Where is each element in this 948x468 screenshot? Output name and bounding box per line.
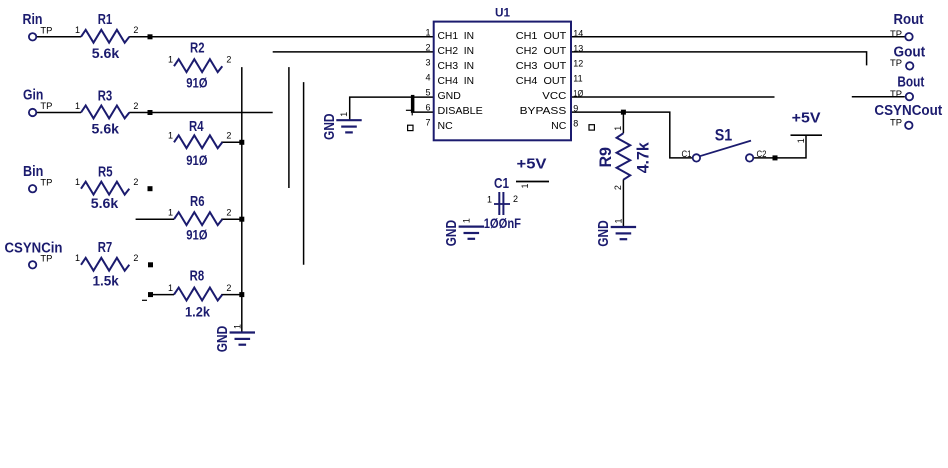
svg-text:5.6k: 5.6k xyxy=(92,121,120,137)
svg-text:R8: R8 xyxy=(190,269,205,285)
svg-text:GND: GND xyxy=(438,90,462,102)
svg-text:2: 2 xyxy=(133,101,138,111)
svg-text:4.7k: 4.7k xyxy=(635,142,653,174)
svg-text:R1: R1 xyxy=(98,12,113,28)
svg-text:7: 7 xyxy=(425,118,430,128)
svg-text:1.2k: 1.2k xyxy=(185,304,210,320)
svg-text:Rout: Rout xyxy=(894,12,924,28)
svg-text:1: 1 xyxy=(613,218,623,223)
svg-text:2: 2 xyxy=(613,185,623,190)
svg-text:1: 1 xyxy=(75,101,80,111)
svg-text:TP: TP xyxy=(890,58,902,69)
svg-text:TP: TP xyxy=(40,101,52,112)
svg-text:R4: R4 xyxy=(189,119,204,135)
svg-text:NC: NC xyxy=(551,120,567,132)
svg-text:1: 1 xyxy=(168,131,173,141)
svg-text:CH4 IN: CH4 IN xyxy=(438,75,475,87)
svg-text:1: 1 xyxy=(232,324,242,329)
svg-text:CH1 IN: CH1 IN xyxy=(438,30,475,42)
svg-text:U1: U1 xyxy=(495,5,510,19)
svg-text:2: 2 xyxy=(513,194,518,204)
svg-text:1: 1 xyxy=(75,177,80,187)
svg-text:1: 1 xyxy=(425,27,430,37)
svg-text:91Ø: 91Ø xyxy=(186,226,207,242)
svg-text:+5V: +5V xyxy=(517,156,547,173)
svg-text:1: 1 xyxy=(75,253,80,263)
svg-text:R5: R5 xyxy=(98,164,113,180)
svg-text:2: 2 xyxy=(133,177,138,187)
svg-text:BYPASS: BYPASS xyxy=(520,105,567,117)
svg-text:C2: C2 xyxy=(757,149,767,159)
svg-text:CH2 OUT: CH2 OUT xyxy=(516,45,567,57)
svg-text:1: 1 xyxy=(520,183,530,188)
svg-text:CH3 IN: CH3 IN xyxy=(438,60,475,72)
svg-text:2: 2 xyxy=(226,208,231,218)
svg-text:CSYNCout: CSYNCout xyxy=(874,103,942,119)
svg-text:DISABLE: DISABLE xyxy=(438,105,483,117)
svg-text:1: 1 xyxy=(461,218,471,223)
svg-text:1: 1 xyxy=(339,112,349,117)
svg-text:CSYNCin: CSYNCin xyxy=(5,240,63,256)
svg-text:TP: TP xyxy=(40,253,52,264)
svg-text:GND: GND xyxy=(321,113,338,140)
svg-text:CH4 OUT: CH4 OUT xyxy=(516,75,567,87)
svg-text:5.6k: 5.6k xyxy=(92,45,120,61)
svg-text:5.6k: 5.6k xyxy=(91,195,119,211)
svg-text:14: 14 xyxy=(573,28,583,38)
svg-text:1: 1 xyxy=(613,126,623,131)
svg-text:GND: GND xyxy=(214,326,231,353)
svg-text:GND: GND xyxy=(595,220,612,247)
svg-text:TP: TP xyxy=(40,25,52,36)
svg-text:1: 1 xyxy=(75,25,80,35)
svg-text:CH2 IN: CH2 IN xyxy=(438,45,475,57)
svg-text:9: 9 xyxy=(573,104,578,114)
svg-text:3: 3 xyxy=(425,57,430,67)
svg-text:2: 2 xyxy=(226,131,231,141)
svg-text:4: 4 xyxy=(425,73,430,83)
svg-text:R2: R2 xyxy=(190,41,205,57)
svg-text:CH3 OUT: CH3 OUT xyxy=(516,60,567,72)
svg-text:VCC: VCC xyxy=(542,90,566,102)
svg-text:12: 12 xyxy=(573,58,583,68)
svg-text:TP: TP xyxy=(890,89,902,100)
svg-text:TP: TP xyxy=(890,29,902,40)
svg-text:R3: R3 xyxy=(98,88,113,104)
svg-text:13: 13 xyxy=(573,43,583,53)
svg-text:1: 1 xyxy=(168,55,173,65)
svg-text:2: 2 xyxy=(133,25,138,35)
svg-text:5: 5 xyxy=(425,88,430,98)
svg-text:NC: NC xyxy=(438,120,454,132)
svg-text:GND: GND xyxy=(443,220,460,247)
svg-text:8: 8 xyxy=(573,119,578,129)
svg-text:1: 1 xyxy=(168,208,173,218)
svg-text:R6: R6 xyxy=(190,194,205,210)
svg-text:1: 1 xyxy=(796,138,806,143)
svg-text:2: 2 xyxy=(425,42,430,52)
svg-text:C1: C1 xyxy=(494,175,509,192)
svg-text:R7: R7 xyxy=(98,240,113,256)
svg-text:TP: TP xyxy=(890,118,902,129)
svg-text:91Ø: 91Ø xyxy=(186,75,207,91)
svg-text:CH1 OUT: CH1 OUT xyxy=(516,30,567,42)
svg-text:1.5k: 1.5k xyxy=(92,273,119,289)
svg-text:6: 6 xyxy=(425,103,430,113)
svg-text:11: 11 xyxy=(573,74,582,84)
svg-text:91Ø: 91Ø xyxy=(186,152,207,168)
svg-text:C1: C1 xyxy=(682,149,692,159)
svg-text:1: 1 xyxy=(168,283,173,293)
svg-text:R9: R9 xyxy=(597,147,615,168)
svg-text:1ØØnF: 1ØØnF xyxy=(484,215,522,231)
svg-text:2: 2 xyxy=(226,55,231,65)
svg-text:TP: TP xyxy=(40,177,52,188)
svg-text:1Ø: 1Ø xyxy=(573,89,583,99)
svg-text:S1: S1 xyxy=(715,127,733,145)
svg-text:+5V: +5V xyxy=(792,110,821,127)
svg-text:2: 2 xyxy=(226,283,231,293)
svg-text:1: 1 xyxy=(487,195,492,205)
svg-text:2: 2 xyxy=(133,253,138,263)
svg-text:Bout: Bout xyxy=(897,74,924,90)
